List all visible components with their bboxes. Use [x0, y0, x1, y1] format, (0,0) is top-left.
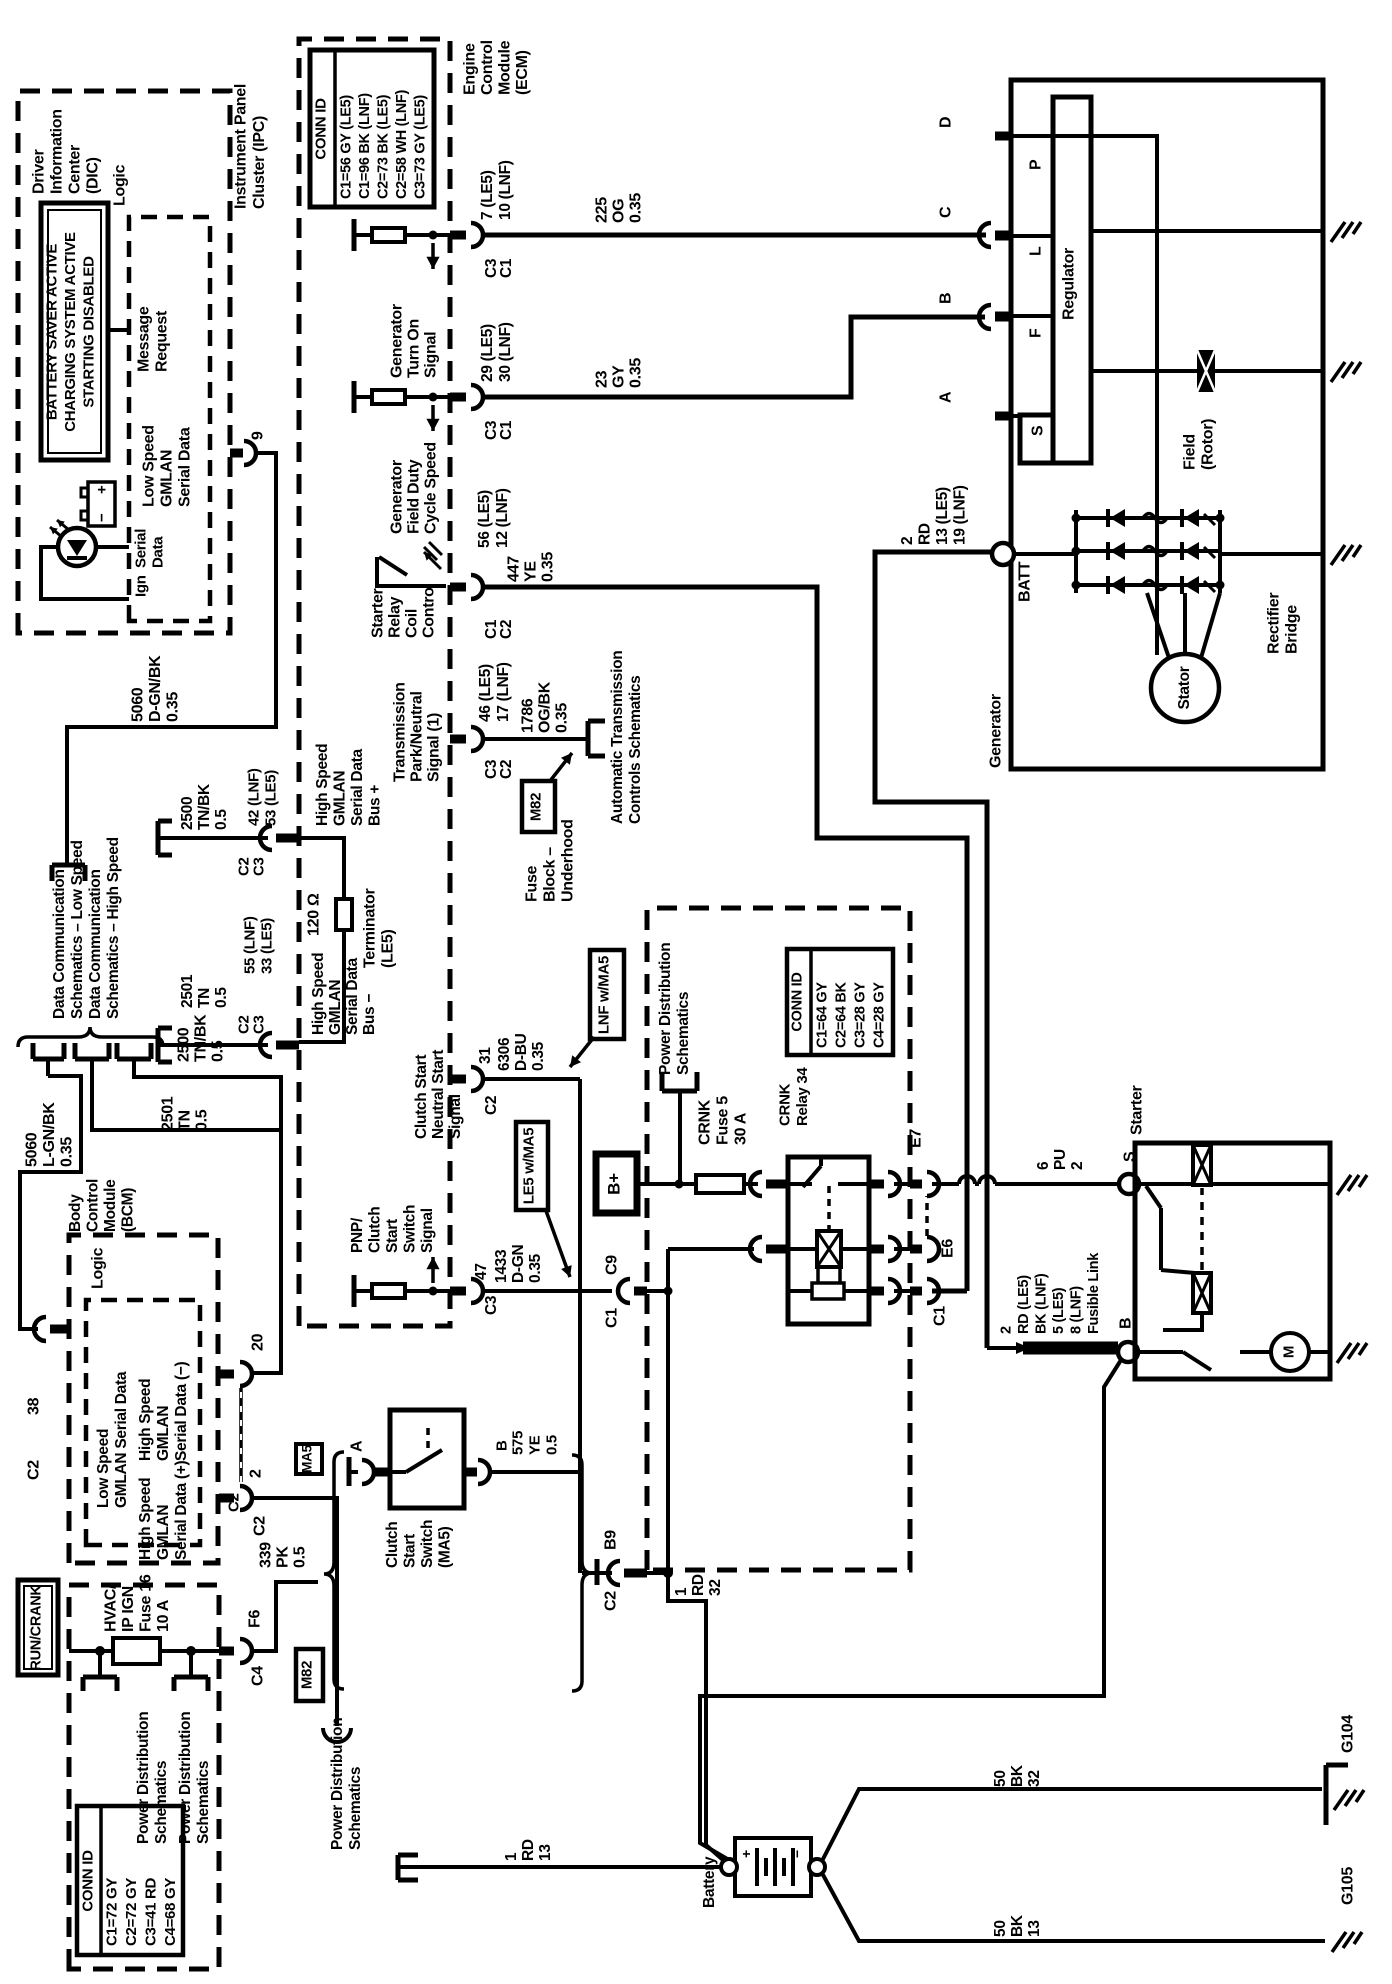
svg-text:30 (LNF): 30 (LNF)	[497, 322, 514, 382]
svg-text:53 (LE5): 53 (LE5)	[263, 770, 280, 826]
connector A of clutch start switch	[349, 1440, 391, 1486]
svg-text:Schematics: Schematics	[347, 1767, 364, 1850]
pin label 29 (LE5) 30 (LNF)	[479, 322, 514, 382]
svg-text:Transmission: Transmission	[392, 682, 409, 782]
wire 50 BK 32	[822, 1789, 1322, 1861]
wire clutch/neutral start junction	[578, 1079, 582, 1573]
svg-text:IP IGN: IP IGN	[120, 1586, 137, 1632]
svg-text:BK (LNF): BK (LNF)	[1033, 1273, 1049, 1334]
svg-text:High Speed: High Speed	[137, 1379, 154, 1461]
ground regulator	[1331, 222, 1361, 242]
svg-text:42 (LNF): 42 (LNF)	[246, 768, 263, 826]
Instrument Panel Cluster (IPC) dashed box	[18, 91, 230, 633]
stator phase leads	[1147, 593, 1220, 658]
svg-text:2: 2	[998, 1326, 1014, 1334]
svg-text:C2: C2	[498, 760, 515, 779]
label CRNK Relay 34	[777, 1067, 812, 1126]
tap wire to power distribution 1	[98, 1651, 102, 1677]
svg-text:Switch: Switch	[419, 1520, 436, 1568]
avalanche marks	[1204, 514, 1215, 592]
terminal letters P L F S	[1028, 159, 1047, 436]
label 1433 D-GN 0.35	[493, 1244, 544, 1283]
label Power Distribution Schematics 1	[135, 1712, 170, 1844]
label 1 RD 32	[673, 1574, 724, 1596]
svg-text:13 (LE5): 13 (LE5)	[934, 487, 951, 545]
svg-text:47: 47	[473, 1263, 490, 1280]
starter coil ground path	[1211, 1182, 1330, 1186]
battery positive cable to starter B	[700, 1360, 1121, 1860]
svg-text:TN/BK: TN/BK	[196, 783, 213, 830]
label 2501 TN 0.5 (bus -)	[179, 974, 230, 1008]
arrow M82 to wire	[550, 753, 572, 781]
junction dot tap 1	[95, 1646, 105, 1656]
connector E6 at fuse block edge	[894, 1237, 957, 1261]
battery positive terminal	[721, 1859, 737, 1875]
svg-text:RD (LE5): RD (LE5)	[1016, 1275, 1032, 1334]
rectifier bottom bus	[1216, 510, 1225, 593]
svg-text:PNP/: PNP/	[349, 1217, 366, 1253]
svg-text:LE5 w/MA5: LE5 w/MA5	[521, 1128, 538, 1204]
label 1786 OG/BK 0.35	[520, 681, 571, 733]
goalpost bus +	[158, 821, 172, 855]
svg-text:19 (LNF): 19 (LNF)	[952, 485, 969, 545]
CONN ID table (fuse block)	[787, 949, 893, 1055]
label Rectifier Bridge	[1266, 593, 1301, 654]
label Clutch Start Neutral Start Signal	[413, 1050, 464, 1139]
svg-text:High Speed: High Speed	[314, 744, 331, 826]
svg-text:Power Distribution: Power Distribution	[657, 943, 674, 1075]
svg-text:CONN ID: CONN ID	[313, 98, 330, 160]
svg-text:RUN/CRANK: RUN/CRANK	[28, 1585, 44, 1671]
svg-text:Bus −: Bus −	[361, 994, 378, 1035]
svg-text:C4=28 GY: C4=28 GY	[871, 982, 887, 1048]
svg-text:C: C	[938, 206, 955, 218]
BCM connector pin 2	[219, 1469, 269, 1536]
label 6306 D-BU 0.35	[496, 1033, 547, 1071]
label Starter Relay Coil Control	[370, 583, 438, 638]
label Generator Turn On Signal	[389, 304, 440, 378]
ground G104	[1326, 1715, 1364, 1825]
IPC logic dashed box	[129, 217, 210, 621]
relay resistor	[788, 1283, 869, 1299]
label Starter	[1129, 1085, 1146, 1135]
svg-text:Schematics: Schematics	[153, 1761, 170, 1844]
connector B9/C2	[582, 1530, 647, 1611]
connector generator L	[979, 223, 1011, 247]
svg-text:D-GN/BK: D-GN/BK	[147, 655, 164, 722]
ECM connector C2 pin 31	[450, 1067, 483, 1091]
svg-text:Serial Data (−): Serial Data (−)	[173, 1362, 190, 1461]
svg-text:1786: 1786	[520, 698, 537, 733]
svg-text:BATTERY SAVER ACTIVE: BATTERY SAVER ACTIVE	[44, 244, 61, 421]
svg-text:Field Duty: Field Duty	[406, 459, 423, 534]
svg-text:Turn On: Turn On	[406, 319, 423, 378]
goalpost power distribution 2	[174, 1677, 208, 1691]
goalpost power distribution (B+)	[662, 1072, 697, 1091]
svg-text:Clutch: Clutch	[384, 1522, 401, 1568]
svg-text:Logic: Logic	[112, 164, 129, 206]
wire 1 RD 32 to battery	[706, 1845, 723, 1860]
svg-text:2501: 2501	[179, 974, 196, 1008]
wire LED to Ign pin	[41, 547, 129, 599]
wire message request	[108, 328, 129, 332]
svg-text:6306: 6306	[496, 1037, 513, 1071]
svg-text:B+: B+	[604, 1173, 623, 1195]
svg-text:Logic: Logic	[90, 1247, 107, 1289]
svg-text:Generator: Generator	[988, 694, 1005, 768]
pin label 31	[477, 1047, 494, 1064]
generator box	[1011, 80, 1323, 769]
connector relay bottom resistor	[869, 1279, 900, 1303]
svg-text:YE: YE	[527, 1435, 544, 1455]
svg-text:B: B	[494, 1440, 511, 1451]
label Instrument Panel Cluster (IPC)	[233, 84, 269, 209]
svg-text:2500: 2500	[179, 797, 196, 830]
terminal letters D C B A	[938, 117, 955, 403]
svg-text:C3: C3	[251, 857, 268, 876]
svg-text:0.35: 0.35	[59, 1137, 76, 1167]
fusible link	[987, 1342, 1118, 1354]
conn label C3 C2 (pin 46)	[483, 759, 515, 779]
conn label C3 C1 (pin 29)	[483, 420, 515, 440]
starter B terminal	[1118, 1318, 1139, 1362]
svg-text:17 (LNF): 17 (LNF)	[495, 662, 512, 722]
label Ign	[133, 575, 150, 597]
svg-text:Fusible Link: Fusible Link	[1086, 1252, 1102, 1334]
connector C1 at fuse block edge	[894, 1279, 967, 1326]
svg-text:G104: G104	[1340, 1715, 1357, 1753]
hold-in coil tail	[1163, 1313, 1202, 1330]
svg-text:GMLAN: GMLAN	[332, 771, 349, 826]
svg-text:−: −	[789, 1850, 805, 1858]
conn label C2 (pin 31)	[483, 1096, 500, 1115]
svg-text:B9: B9	[603, 1530, 620, 1550]
svg-text:50: 50	[992, 1770, 1009, 1787]
svg-text:F: F	[1028, 328, 1045, 338]
ECM connector C3/C2 pin 46	[450, 727, 483, 751]
svg-text:1: 1	[503, 1852, 520, 1861]
DIC message box BATTERY SAVER ACTIVE	[41, 203, 108, 460]
label 447 YE 0.35	[506, 552, 557, 582]
label 120 ohm	[306, 893, 323, 936]
svg-text:OG/BK: OG/BK	[537, 681, 554, 733]
svg-text:Stator: Stator	[1176, 666, 1193, 709]
BCM connector pin 20	[219, 1333, 267, 1386]
svg-text:Control: Control	[421, 583, 438, 638]
svg-text:C1=96 BK (LNF): C1=96 BK (LNF)	[357, 93, 373, 199]
svg-text:GMLAN: GMLAN	[155, 1406, 172, 1461]
svg-text:Serial: Serial	[133, 529, 150, 568]
svg-text:Underhood: Underhood	[560, 819, 577, 902]
svg-text:C3: C3	[483, 1295, 500, 1315]
label High Speed GMLAN Serial Data Bus +	[314, 744, 384, 826]
svg-text:Serial Data (+): Serial Data (+)	[173, 1461, 190, 1560]
svg-text:BATT: BATT	[1017, 561, 1034, 602]
wire 1 RD 13	[398, 1865, 721, 1869]
svg-text:Fuse 5: Fuse 5	[715, 1096, 732, 1145]
svg-text:0.35: 0.35	[628, 358, 645, 388]
svg-text:Park/Neutral: Park/Neutral	[409, 691, 426, 782]
svg-text:RD: RD	[690, 1574, 707, 1596]
svg-text:C2=73 BK (LE5): C2=73 BK (LE5)	[375, 94, 391, 199]
svg-text:CONN ID: CONN ID	[80, 1850, 97, 1912]
svg-text:C3=41 RD: C3=41 RD	[143, 1877, 160, 1946]
svg-text:13: 13	[1026, 1920, 1043, 1937]
coil link dashes (starter)	[1200, 1188, 1204, 1270]
svg-text:0.5: 0.5	[292, 1546, 309, 1568]
svg-text:C9: C9	[604, 1255, 621, 1275]
connector fuse to relay	[750, 1172, 788, 1196]
svg-text:(MA5): (MA5)	[437, 1526, 454, 1568]
goalpost 2500	[117, 1043, 151, 1074]
wire 2 RD from generator BATT	[875, 552, 995, 1348]
ground field	[1331, 362, 1361, 382]
BATT output terminal	[992, 543, 1034, 602]
M82 splice box (lower)	[296, 1649, 323, 1701]
svg-text:+: +	[738, 1850, 754, 1858]
label 225 OG 0.35	[594, 193, 645, 223]
wire label 5060 D-GN/BK 0.35	[130, 655, 182, 722]
svg-text:0.35: 0.35	[540, 552, 557, 582]
svg-text:7 (LE5): 7 (LE5)	[479, 170, 496, 220]
svg-text:C3=28 GY: C3=28 GY	[852, 982, 868, 1048]
svg-text:Engine: Engine	[462, 43, 479, 95]
svg-text:Information: Information	[49, 109, 66, 194]
svg-text:0.5: 0.5	[213, 987, 230, 1008]
svg-text:C1=72 GY: C1=72 GY	[104, 1878, 121, 1946]
RUN/CRANK label box	[18, 1580, 58, 1675]
svg-text:2501: 2501	[160, 1096, 177, 1131]
tap wire to power distribution 2	[189, 1651, 193, 1677]
label Power Distribution Schematics (battery)	[329, 1718, 364, 1850]
svg-text:5 (LE5): 5 (LE5)	[1051, 1287, 1067, 1334]
label Power Distribution Schematics (B+)	[657, 943, 692, 1075]
svg-text:Switch: Switch	[402, 1205, 419, 1253]
svg-text:C2: C2	[26, 1460, 43, 1480]
svg-text:Clutch: Clutch	[367, 1207, 384, 1253]
wire 575 YE	[490, 1470, 580, 1474]
svg-text:Start: Start	[384, 1219, 401, 1253]
wire coil feed from junction	[668, 1247, 754, 1251]
svg-text:6: 6	[1035, 1161, 1052, 1170]
relay switch	[788, 1157, 869, 1187]
svg-text:Instrument Panel: Instrument Panel	[233, 84, 250, 209]
terminator loop wire	[299, 838, 344, 1042]
svg-text:Power Distribution: Power Distribution	[135, 1712, 152, 1844]
dashed twisted pair link pins 20-2	[239, 1388, 243, 1482]
svg-text:BK: BK	[1009, 1914, 1026, 1937]
pin label 7 (LE5) 10 (LNF)	[479, 160, 514, 220]
B+ terminal box	[596, 1154, 637, 1213]
label 1 RD 13	[503, 1839, 554, 1861]
svg-text:Bridge: Bridge	[1284, 605, 1301, 654]
svg-text:Signal: Signal	[423, 332, 440, 378]
svg-text:Field: Field	[1182, 434, 1199, 470]
label Field (Rotor)	[1182, 419, 1217, 470]
svg-text:447: 447	[506, 556, 523, 582]
M82 splice box (transmission)	[522, 781, 555, 832]
label 2500 TN/BK 0.5 (bus +)	[179, 783, 230, 830]
label fusible link	[998, 1252, 1102, 1334]
svg-text:C1: C1	[932, 1306, 949, 1326]
starter pull-in coil	[1193, 1143, 1211, 1185]
svg-text:Block –: Block –	[542, 847, 559, 902]
svg-text:Coil: Coil	[404, 609, 421, 638]
clutch switch contacts	[390, 1424, 442, 1472]
goalpost power distribution (battery)	[398, 1855, 418, 1880]
off-page goalpost (IPC serial data)	[52, 865, 85, 881]
svg-text:Bus +: Bus +	[367, 785, 384, 826]
rectifier phase rails	[1076, 518, 1220, 585]
label Power Distribution Schematics 2	[177, 1712, 212, 1844]
svg-text:B: B	[938, 293, 955, 304]
svg-text:Starter: Starter	[370, 588, 387, 638]
off-page goalpost automatic transmission	[588, 721, 605, 756]
svg-text:0.5: 0.5	[544, 1435, 561, 1455]
regulator box	[1020, 97, 1091, 463]
BCM logic dashed box	[86, 1300, 200, 1545]
wire LED to serial data pin	[96, 545, 129, 549]
svg-text:50: 50	[992, 1920, 1009, 1937]
battery indicator icon	[81, 482, 115, 526]
svg-text:38: 38	[26, 1397, 43, 1415]
label Body Control Module (BCM)	[67, 1179, 137, 1232]
svg-text:Power Distribution: Power Distribution	[177, 1712, 194, 1844]
wire 23 GY 0.35	[481, 317, 985, 397]
svg-text:PK: PK	[275, 1546, 292, 1568]
label Generator	[988, 694, 1005, 768]
svg-text:10 A: 10 A	[155, 1599, 172, 1632]
label 23 GY 0.35	[594, 358, 645, 388]
conn label C2 C3 (bus +)	[236, 857, 268, 876]
svg-text:RD: RD	[520, 1839, 537, 1861]
svg-text:32: 32	[1026, 1770, 1043, 1787]
stator winding bumps	[1143, 514, 1167, 590]
svg-text:(BCM): (BCM)	[120, 1188, 137, 1232]
label High Speed GMLAN Serial Data Bus -	[310, 953, 378, 1035]
svg-text:C2=72 GY: C2=72 GY	[123, 1878, 140, 1946]
ECM connector C1/C2 pin 56	[450, 575, 483, 599]
ground G105	[1332, 1867, 1362, 1952]
starter solenoid wiring	[1139, 1184, 1195, 1273]
svg-text:Center: Center	[67, 145, 84, 194]
svg-text:0.35: 0.35	[628, 193, 645, 223]
svg-text:OG: OG	[611, 199, 628, 223]
svg-text:Module: Module	[497, 40, 514, 95]
svg-text:GMLAN Serial Data: GMLAN Serial Data	[113, 1371, 130, 1508]
svg-text:Schematics – High Speed: Schematics – High Speed	[105, 837, 122, 1019]
label 2500 TN/BK 0.5 (BCM side)	[176, 1014, 227, 1062]
svg-text:M: M	[1281, 1346, 1298, 1358]
ECM connector bus -	[260, 1033, 299, 1057]
svg-text:PU: PU	[1052, 1149, 1069, 1170]
svg-text:Control: Control	[85, 1179, 102, 1232]
B+ stub to feed	[637, 1180, 684, 1189]
label Generator Field Duty Cycle Speed	[389, 442, 440, 534]
svg-text:GMLAN: GMLAN	[155, 1505, 172, 1560]
svg-text:Serial Data: Serial Data	[177, 427, 194, 507]
IPC connector pin 9	[230, 431, 267, 465]
label Clutch Start Switch (MA5)	[384, 1520, 454, 1568]
svg-text:Start: Start	[402, 1534, 419, 1568]
label 6 PU 2	[1035, 1149, 1086, 1170]
label PNP/ Clutch Start Switch Signal	[349, 1205, 436, 1253]
MA5 label box	[296, 1444, 322, 1474]
wire C9 to junction	[647, 1287, 673, 1296]
goalpost bus -	[158, 1028, 172, 1062]
wire 6306 D-BU	[481, 1077, 580, 1081]
svg-text:C2: C2	[498, 620, 515, 639]
label Battery	[701, 1856, 718, 1908]
svg-text:Power Distribution: Power Distribution	[329, 1718, 346, 1850]
ECM pin 56 switch symbol	[377, 542, 446, 586]
svg-text:C4: C4	[250, 1666, 267, 1686]
dashed link E7-E6	[925, 1196, 929, 1236]
svg-text:C1: C1	[498, 258, 515, 278]
svg-text:C2: C2	[252, 1516, 269, 1536]
wire 5060 L-GN/BK	[20, 1076, 81, 1329]
P stator tap wire	[1035, 136, 1157, 655]
underhood fuse block (RUN/CRANK) dashed box	[69, 1585, 219, 1969]
svg-text:E7: E7	[908, 1129, 925, 1148]
svg-text:(DIC): (DIC)	[85, 157, 102, 194]
pin label 47	[473, 1263, 490, 1280]
svg-text:Starter: Starter	[1129, 1085, 1146, 1135]
svg-text:Schematics – Low Speed: Schematics – Low Speed	[69, 840, 86, 1019]
svg-text:55 (LNF): 55 (LNF)	[242, 916, 259, 974]
regulator terminal links	[1011, 136, 1053, 416]
BCM connector pin 38	[26, 1317, 70, 1480]
svg-text:46 (LE5): 46 (LE5)	[477, 664, 494, 722]
label Transmission Park/Neutral Signal (1)	[392, 682, 443, 782]
connector coil top	[750, 1237, 788, 1261]
wire 2501 TN	[92, 1074, 281, 1130]
wire 339 PK from BCM pin 2	[252, 1498, 337, 1726]
brace Data Communication	[18, 1027, 163, 1047]
conn label C3 C1 (pin 7)	[483, 258, 515, 278]
svg-text:Relay: Relay	[387, 596, 404, 638]
svg-text:Request: Request	[154, 310, 171, 372]
brace over clutch start switch variants	[324, 1452, 344, 1689]
svg-text:GY: GY	[611, 365, 628, 388]
svg-text:Driver: Driver	[31, 149, 48, 194]
svg-text:Generator: Generator	[389, 304, 406, 378]
svg-text:10 (LNF): 10 (LNF)	[497, 160, 514, 220]
clutch start switch box	[390, 1410, 464, 1508]
label Low Speed GMLAN Serial Data (BCM)	[95, 1371, 130, 1508]
svg-text:C3=73 GY (LE5): C3=73 GY (LE5)	[412, 95, 428, 199]
svg-text:Data: Data	[150, 536, 167, 568]
wire 225 OG 0.35	[481, 233, 986, 238]
ECM pin 47 internal resistor	[354, 1257, 440, 1307]
svg-text:2: 2	[899, 537, 916, 545]
svg-text:YE: YE	[523, 561, 540, 582]
pin label 56 (LE5) 12 (LNF)	[476, 488, 511, 548]
svg-text:D-GN: D-GN	[510, 1244, 527, 1283]
svg-text:0.5: 0.5	[194, 1109, 211, 1131]
svg-text:Regulator: Regulator	[1061, 248, 1078, 320]
Fuse Block - Underhood dashed box	[647, 908, 910, 1570]
svg-text:Message: Message	[136, 306, 153, 372]
wire 50 BK 13	[822, 1873, 1325, 1941]
connector C9/C1 into fuse block	[604, 1255, 648, 1328]
label 50 BK 32	[992, 1764, 1043, 1787]
svg-text:225: 225	[594, 197, 611, 223]
svg-text:120 Ω: 120 Ω	[306, 893, 323, 936]
label 339 PK 0.5	[226, 1493, 309, 1568]
svg-text:12 (LNF): 12 (LNF)	[494, 488, 511, 548]
CONN ID table (RUN/CRANK)	[77, 1806, 183, 1955]
